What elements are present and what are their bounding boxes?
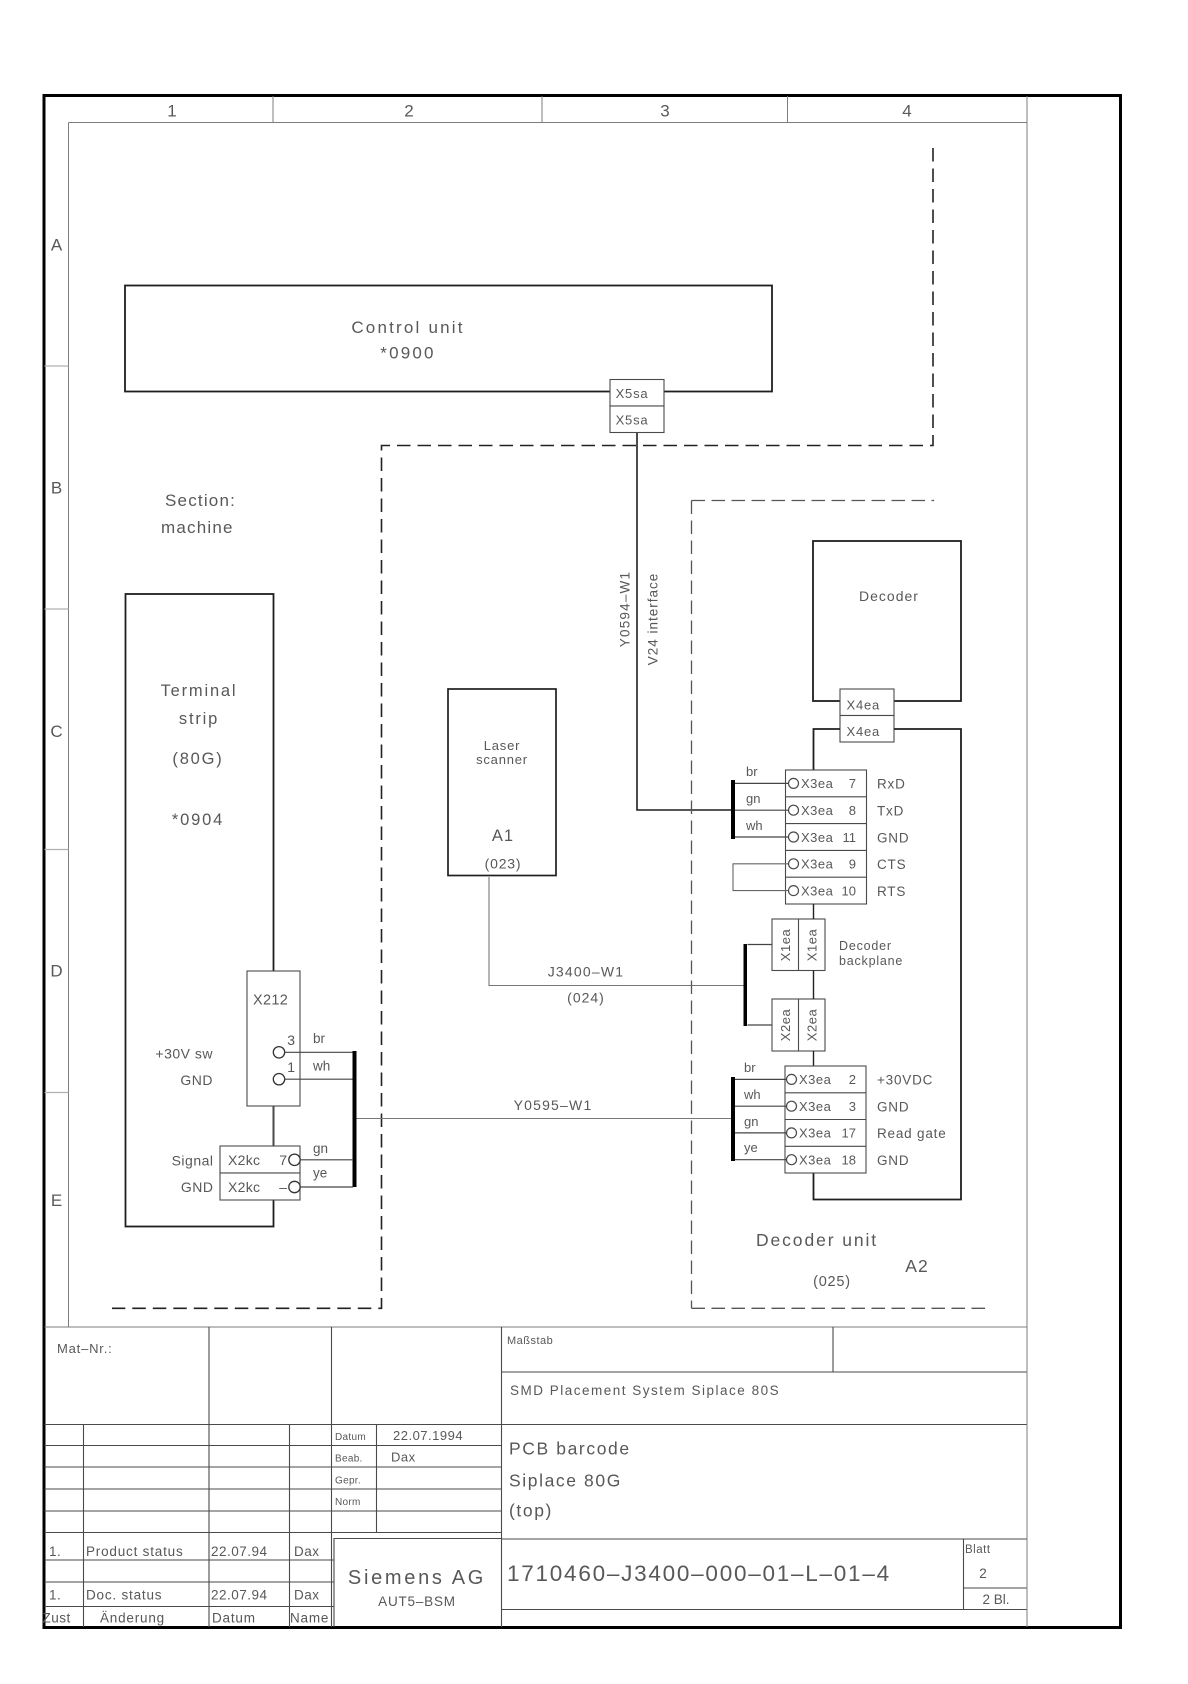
svg-text:1: 1 (167, 102, 176, 121)
decoder unit A2 labels (756, 1230, 929, 1290)
svg-text:3: 3 (287, 1032, 295, 1048)
svg-text:strip: strip (179, 710, 219, 728)
svg-text:CTS: CTS (877, 857, 906, 872)
svg-text:A2: A2 (905, 1256, 928, 1276)
svg-text:X4ea: X4ea (847, 724, 881, 739)
svg-text:wh: wh (743, 1087, 761, 1102)
pin X3ea 11 (789, 832, 799, 842)
svg-text:+30V sw: +30V sw (155, 1045, 213, 1061)
svg-text:2 Bl.: 2 Bl. (982, 1592, 1009, 1607)
wire X1ea to X2ea (813, 971, 815, 1000)
svg-text:Änderung: Änderung (100, 1611, 165, 1626)
svg-text:A1: A1 (492, 827, 514, 845)
wire wh to pin11 (735, 836, 789, 838)
wire gn to pin17 (735, 1132, 787, 1134)
svg-text:X3ea: X3ea (799, 1072, 832, 1087)
control unit *0900 (125, 286, 772, 392)
wire br to pin7 (735, 782, 789, 784)
svg-text:X2ea: X2ea (778, 1009, 793, 1042)
wire Y0594-W1 (X5sa down, right to decoder) (637, 433, 731, 810)
wire Y0595-W1 (357, 1118, 732, 1120)
svg-text:7: 7 (279, 1152, 287, 1168)
connector X1ea (772, 919, 825, 971)
svg-text:SMD Placement System Siplace 8: SMD Placement System Siplace 80S (510, 1383, 780, 1398)
decoder box (813, 541, 961, 701)
svg-text:X1ea: X1ea (778, 929, 793, 962)
cable bundle bar (J3400 side) (744, 944, 748, 1026)
pin X3ea 18 (787, 1155, 797, 1165)
svg-text:Mat–Nr.:: Mat–Nr.: (57, 1341, 113, 1356)
svg-text:17: 17 (842, 1126, 856, 1141)
connector X212 (247, 971, 300, 1106)
svg-text:X2kc: X2kc (228, 1152, 260, 1168)
svg-text:br: br (313, 1031, 326, 1046)
svg-text:RxD: RxD (877, 777, 906, 792)
jumper CTS-RTS (733, 864, 788, 891)
section machine dashed boundary (112, 148, 933, 1308)
wire X2kc- to cable (300, 1186, 353, 1188)
svg-text:(023): (023) (485, 856, 522, 872)
svg-text:Datum: Datum (212, 1611, 256, 1626)
svg-text:machine: machine (161, 518, 234, 537)
svg-text:22.07.94: 22.07.94 (211, 1544, 268, 1559)
wire stub X212 to X2kc (273, 1106, 275, 1146)
pin X3ea 8 (789, 805, 799, 815)
svg-text:X3ea: X3ea (801, 803, 834, 818)
connector X2ea (772, 999, 825, 1051)
decoder unit internal frame (814, 729, 962, 1200)
svg-text:Gepr.: Gepr. (335, 1476, 361, 1487)
svg-text:9: 9 (849, 857, 856, 872)
svg-text:GND: GND (877, 1153, 909, 1168)
pin X3ea 10 (789, 886, 799, 896)
svg-text:X5sa: X5sa (616, 413, 649, 428)
connector X5sa (control unit side) (610, 380, 664, 433)
svg-text:AUT5–BSM: AUT5–BSM (378, 1594, 456, 1609)
svg-text:X1ea: X1ea (805, 929, 820, 962)
svg-text:(024): (024) (567, 990, 605, 1006)
svg-text:Product status: Product status (86, 1544, 184, 1559)
svg-text:X3ea: X3ea (799, 1126, 832, 1141)
wire X2kc7 to cable (300, 1159, 353, 1161)
svg-text:(80G): (80G) (172, 750, 223, 768)
svg-text:Read gate: Read gate (877, 1126, 947, 1141)
cable bundle bar (serial) (731, 780, 735, 839)
svg-text:22.07.94: 22.07.94 (211, 1588, 268, 1603)
svg-text:Siemens AG: Siemens AG (348, 1567, 486, 1589)
svg-text:gn: gn (313, 1141, 328, 1156)
svg-text:Y0594–W1: Y0594–W1 (618, 571, 633, 647)
svg-text:2: 2 (849, 1072, 856, 1087)
svg-text:Zust: Zust (43, 1611, 71, 1626)
svg-text:B: B (51, 479, 62, 498)
svg-text:V24 interface: V24 interface (646, 573, 661, 666)
wire pin3 to cable (285, 1051, 353, 1053)
svg-text:scanner: scanner (476, 752, 528, 767)
decoder backplane label (839, 939, 903, 968)
pin X3ea 17 (787, 1128, 797, 1138)
svg-text:A: A (51, 236, 63, 255)
pin 3 of X212 (273, 1047, 284, 1058)
wire bar to X1ea (748, 944, 773, 946)
wire wh to pin3 (735, 1105, 787, 1107)
svg-text:Name: Name (290, 1611, 329, 1626)
wire X3ea1 to X1ea (813, 904, 815, 919)
svg-text:10: 10 (842, 884, 856, 899)
svg-text:D: D (50, 962, 62, 981)
svg-text:Maßstab: Maßstab (507, 1335, 553, 1347)
wire br to pin2 (735, 1078, 787, 1080)
svg-text:GND: GND (877, 831, 909, 846)
svg-text:Beab.: Beab. (335, 1454, 363, 1465)
svg-text:E: E (51, 1191, 62, 1210)
svg-text:Decoder: Decoder (859, 588, 919, 604)
X3ea serial connector block (786, 770, 867, 904)
svg-text:Decoder unit: Decoder unit (756, 1230, 878, 1250)
svg-text:Y0595–W1: Y0595–W1 (514, 1097, 593, 1113)
svg-text:(top): (top) (509, 1501, 553, 1521)
svg-text:X4ea: X4ea (847, 698, 881, 713)
svg-text:8: 8 (849, 803, 856, 818)
pin 1 of X212 (273, 1074, 284, 1085)
svg-text:RTS: RTS (877, 884, 906, 899)
svg-text:X3ea: X3ea (799, 1099, 832, 1114)
wire bar to X2ea (748, 1024, 773, 1026)
svg-text:X3ea: X3ea (801, 884, 834, 899)
svg-text:Control unit: Control unit (351, 318, 464, 337)
pin X3ea 9 (789, 859, 799, 869)
svg-text:ye: ye (313, 1166, 327, 1181)
pin X3ea 2 (787, 1074, 797, 1084)
pin X3ea 3 (787, 1101, 797, 1111)
wire X2ea to X3ea2 (813, 1051, 815, 1066)
laser scanner A1 box (448, 689, 556, 876)
svg-text:18: 18 (842, 1153, 856, 1168)
svg-text:X212: X212 (253, 993, 288, 1009)
cable bundle bar (terminal side) (353, 1051, 357, 1187)
terminal strip *0904 box (126, 594, 274, 1227)
svg-text:X3ea: X3ea (801, 776, 834, 791)
svg-text:wh: wh (745, 818, 763, 833)
svg-text:Dax: Dax (391, 1450, 416, 1465)
title block texts (43, 1335, 1010, 1626)
svg-text:+30VDC: +30VDC (877, 1073, 933, 1088)
svg-text:Signal: Signal (172, 1152, 214, 1168)
svg-text:11: 11 (843, 830, 857, 845)
decoder unit dashed enclosure (692, 501, 988, 1309)
svg-text:X5sa: X5sa (616, 386, 649, 401)
svg-text:TxD: TxD (877, 804, 904, 819)
svg-text:GND: GND (181, 1179, 214, 1195)
pin X3ea 7 (789, 778, 799, 788)
svg-text:GND: GND (180, 1072, 213, 1088)
svg-text:Decoder: Decoder (839, 939, 892, 953)
svg-text:1.: 1. (49, 1588, 61, 1603)
svg-text:Dax: Dax (294, 1544, 320, 1559)
pin circle X2kc - (289, 1181, 300, 1192)
svg-text:Section:: Section: (165, 491, 236, 510)
pin circle X2kc 7 (289, 1154, 300, 1165)
connector X2kc pin 7 (220, 1146, 300, 1200)
svg-text:3: 3 (660, 102, 669, 121)
svg-text:Blatt: Blatt (965, 1544, 991, 1556)
svg-text:X2kc: X2kc (228, 1179, 260, 1195)
svg-text:C: C (50, 722, 62, 741)
svg-text:2: 2 (979, 1566, 987, 1581)
connector X4ea (decoder side) (840, 689, 894, 742)
wire gn to pin8 (735, 809, 789, 811)
svg-text:gn: gn (744, 1114, 758, 1129)
svg-text:X3ea: X3ea (799, 1153, 832, 1168)
svg-text:GND: GND (877, 1100, 909, 1115)
svg-text:X3ea: X3ea (801, 830, 834, 845)
svg-text:(025): (025) (813, 1274, 851, 1290)
wire ye to pin18 (735, 1159, 787, 1161)
frame labels (50, 102, 911, 1211)
svg-text:22.07.1994: 22.07.1994 (393, 1428, 463, 1443)
svg-text:4: 4 (902, 102, 911, 121)
svg-text:Terminal: Terminal (161, 682, 238, 700)
svg-text:*0900: *0900 (380, 344, 435, 363)
svg-text:backplane: backplane (839, 954, 903, 968)
wire pin1 to cable (285, 1078, 353, 1080)
svg-text:Laser: Laser (484, 738, 521, 753)
svg-text:*0904: *0904 (172, 811, 224, 829)
svg-text:3: 3 (849, 1099, 856, 1114)
svg-text:1: 1 (287, 1059, 295, 1075)
svg-text:X3ea: X3ea (801, 857, 834, 872)
svg-text:1.: 1. (49, 1544, 61, 1559)
svg-text:PCB barcode: PCB barcode (509, 1439, 631, 1459)
X3ea power connector block (785, 1066, 866, 1173)
wire J3400-W1 (laser to backplane) (489, 877, 744, 986)
frame inner lines (45, 96, 1028, 1627)
svg-text:Datum: Datum (335, 1432, 366, 1443)
section machine label (161, 491, 236, 537)
svg-text:wh: wh (312, 1059, 330, 1074)
svg-text:7: 7 (849, 776, 856, 791)
svg-text:Dax: Dax (294, 1588, 320, 1603)
svg-text:X2ea: X2ea (805, 1009, 820, 1042)
svg-text:2: 2 (404, 102, 413, 121)
svg-text:Norm: Norm (335, 1497, 361, 1508)
svg-text:gn: gn (746, 791, 760, 806)
svg-text:br: br (744, 1060, 756, 1075)
title block grid (45, 1327, 1027, 1627)
svg-text:–: – (279, 1179, 287, 1195)
svg-text:J3400–W1: J3400–W1 (548, 963, 625, 979)
svg-text:1710460–J3400–000–01–L–01–4: 1710460–J3400–000–01–L–01–4 (507, 1561, 891, 1586)
cable bundle bar (power) (731, 1077, 735, 1161)
svg-text:ye: ye (744, 1140, 758, 1155)
svg-text:Siplace 80G: Siplace 80G (509, 1471, 622, 1491)
svg-text:Doc. status: Doc. status (86, 1588, 162, 1603)
svg-text:br: br (746, 764, 758, 779)
